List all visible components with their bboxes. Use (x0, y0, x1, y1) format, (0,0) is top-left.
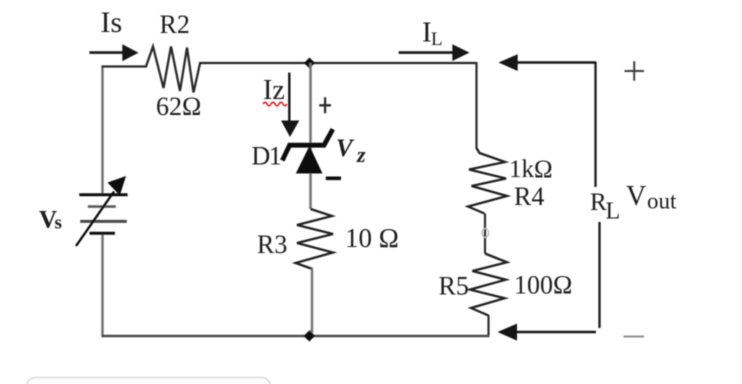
plus sign right (Vout +) (625, 61, 645, 81)
zener diode D1 (bar with bent ends) (282, 129, 333, 160)
variable-source arrow across battery (76, 192, 114, 247)
svg-text:s: s (55, 213, 62, 234)
battery source Vs plate4 short (90, 232, 115, 235)
current arrow IL (399, 51, 454, 54)
resistor R2 (146, 47, 200, 93)
svg-text:V: V (626, 181, 646, 212)
svg-text:62Ω: 62Ω (156, 92, 201, 121)
node A (top junction dot) (304, 58, 315, 69)
current arrow Is (89, 51, 124, 54)
battery source Vs plate1 long (79, 193, 127, 196)
svg-text:out: out (647, 189, 677, 214)
wire bottom horizontal (102, 335, 490, 337)
battery source Vs plate3 long (80, 220, 127, 223)
svg-text:Is: Is (101, 6, 123, 39)
current arrow Iz (288, 73, 290, 123)
battery source Vs plate2 short (88, 205, 116, 208)
wire R3 to bottom node (310, 269, 312, 337)
plus sign near zener top (319, 97, 331, 113)
node B (bottom junction dot) (304, 331, 315, 342)
wire R5 bottom lead (487, 315, 489, 335)
wire R4 branch top vertical (475, 62, 477, 149)
wire left vertical upper (Vs top lead) (101, 67, 103, 195)
svg-text:L: L (606, 199, 621, 225)
svg-text:R3: R3 (257, 230, 287, 259)
wire between R4 and R5 (484, 214, 486, 254)
svg-text:Iz: Iz (263, 75, 285, 106)
svg-text:1kΩ: 1kΩ (509, 156, 553, 183)
svg-text:z: z (356, 142, 366, 167)
svg-text:D1: D1 (252, 142, 281, 171)
resistor R5 (470, 254, 507, 316)
svg-text:100Ω: 100Ω (514, 271, 572, 300)
zener diode D1 triangle (297, 148, 321, 173)
wire RL right vertical lower (598, 222, 600, 328)
svg-text:R4: R4 (514, 182, 544, 211)
resistor R3 (296, 209, 333, 269)
arrow into node from RL top (points left) (517, 61, 596, 64)
svg-text:R5: R5 (439, 272, 469, 301)
svg-text:V: V (336, 135, 355, 162)
svg-text:10 Ω: 10 Ω (345, 223, 399, 253)
svg-text:L: L (431, 29, 443, 50)
svg-text:R2: R2 (160, 10, 190, 39)
arrow into bottom node from RL (points left) (517, 331, 597, 334)
decorative rounded box bottom-left (27, 378, 271, 384)
minus sign below zener (326, 177, 341, 181)
resistor R4 (468, 148, 507, 214)
wire RL right vertical upper (594, 62, 596, 188)
minus sign right (Vout -) (624, 336, 645, 338)
wire top-left horizontal to R2 (102, 65, 148, 67)
svg-text:R: R (590, 189, 607, 216)
red wavy underline under Iz (263, 102, 287, 106)
wire top horizontal R2 to right corner (199, 62, 476, 64)
wire zener branch vertical (node to D1 and through) (309, 63, 312, 209)
anchor mark on wire (482, 229, 488, 238)
wire left vertical lower (Vs bottom lead) (101, 234, 103, 337)
